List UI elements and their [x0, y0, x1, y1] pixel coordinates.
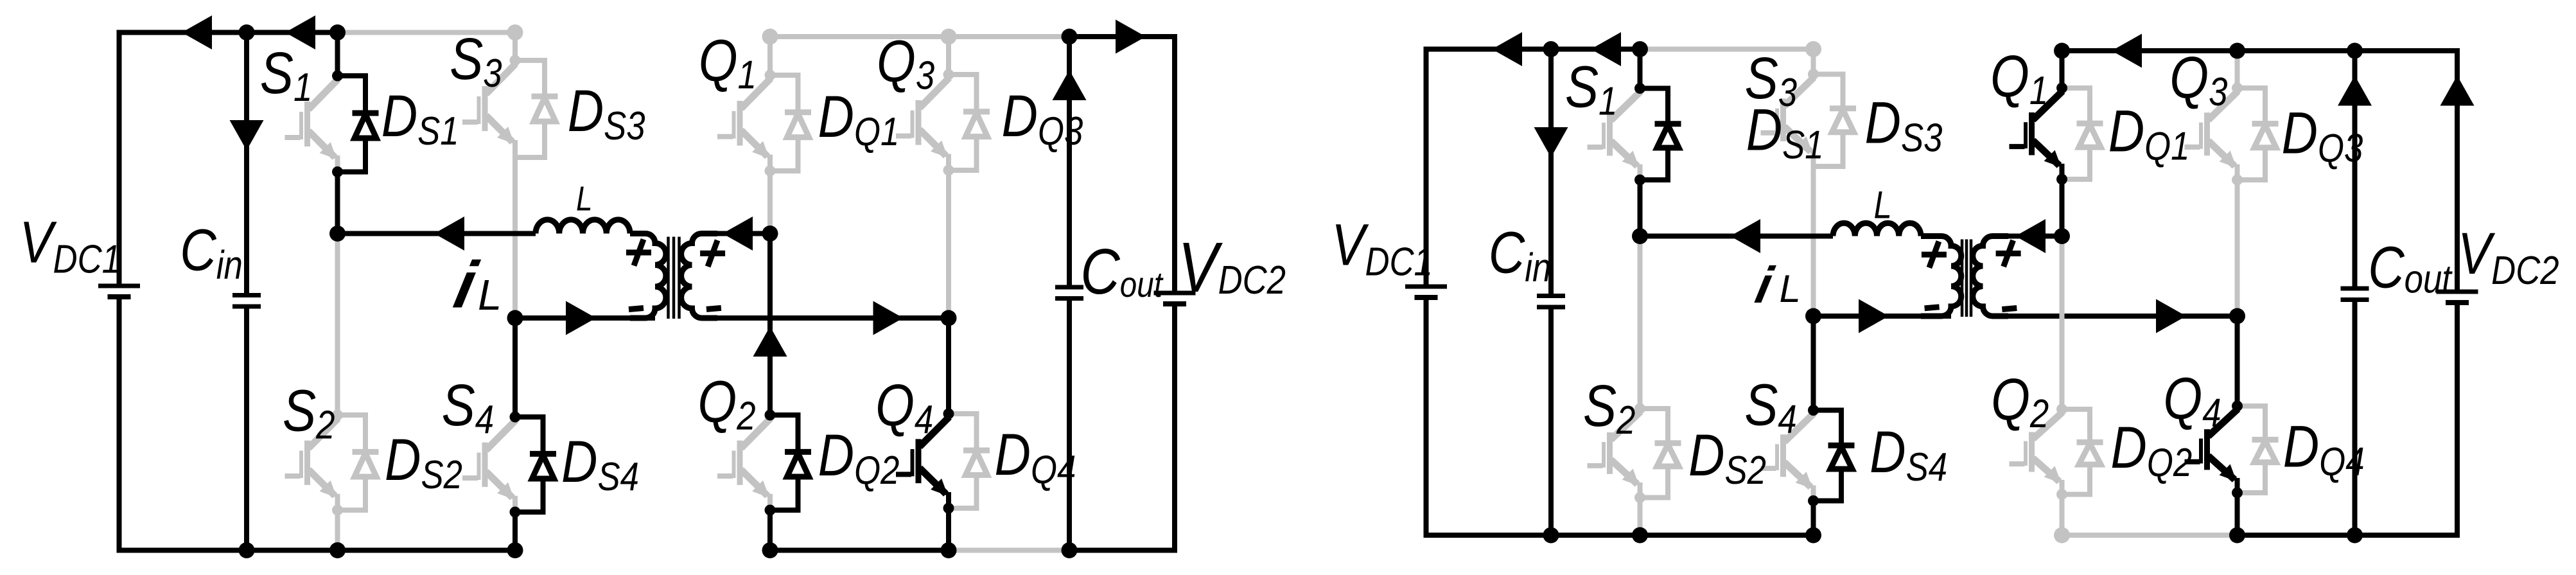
svg-text:S2: S2	[283, 378, 335, 448]
svg-text:S4: S4	[1744, 373, 1796, 442]
node c2 node B (S4 leg mid)	[1805, 308, 1821, 324]
battery V_DC1 (c1)	[98, 286, 140, 297]
battery V_DC2 (c1)	[1154, 293, 1196, 304]
node c2 bottom rail S4 junction	[1805, 527, 1821, 544]
wire c2 bottom rail Q2-Q4 segment	[2062, 533, 2238, 538]
transistor Q3 (c2) (IGBT)	[2185, 91, 2238, 180]
node S4 (c2) emitter	[1808, 495, 1819, 506]
wire c2 bottom rail Q4-C_out segment	[2238, 533, 2355, 538]
node S4 (c1) emitter	[510, 507, 521, 518]
wire c1 transformer secondary top arrow	[723, 217, 753, 251]
node Q4 (c1) collector	[943, 409, 954, 420]
node Q2 (c1) collector	[765, 410, 776, 421]
diode DQ3 (c1)	[949, 75, 990, 170]
wire c1 V_DC1 left branch top	[119, 33, 338, 285]
svg-text:Cin: Cin	[1489, 220, 1551, 290]
diode DS2 (c2)	[1640, 409, 1681, 498]
wire c2 top rail arrow 1	[1492, 32, 1522, 66]
diode DQ2 (c1)	[770, 415, 811, 510]
wire c2 S2 gray leg	[1638, 236, 1643, 409]
wire c1 S4 collector stub	[513, 318, 518, 417]
svg-text:Cin: Cin	[180, 218, 242, 288]
label plus primary (c1)	[626, 240, 651, 266]
node S1 (c2) emitter	[1634, 175, 1645, 186]
wire c2 S3 collector stub	[1811, 49, 1816, 75]
wire c2 Q1 emitter to mid node	[2060, 179, 2065, 236]
transistor S1 (c2) (IGBT)	[1588, 91, 1641, 180]
wire c2 top rail gray segment S1-S3	[1640, 47, 1814, 52]
node c1 secondary top rail Q1 junction	[762, 29, 778, 45]
wire c1 C_in branch top	[244, 33, 249, 294]
node S1 (c1) collector	[332, 71, 343, 82]
svg-text:i: i	[1751, 257, 1778, 314]
wire c2 secondary top rail right segment	[2355, 51, 2458, 290]
node c1 secondary top rail Q3 junction	[941, 29, 957, 45]
node S2 (c1) collector	[332, 410, 343, 421]
diode DQ4 (c2)	[2238, 406, 2279, 493]
wire c1 lower mid wire arrow	[566, 301, 596, 335]
wire c1 S1 emitter to mid node	[335, 172, 340, 234]
diode DS2 (c1)	[338, 415, 379, 510]
svg-text:L: L	[1780, 267, 1801, 310]
node c1 node C (Q1 leg mid)	[762, 226, 778, 242]
node S2 (c2) collector	[1634, 403, 1645, 414]
node S3 (c1) collector	[510, 55, 521, 66]
transformer T2	[1921, 236, 2008, 317]
wire c2 lower mid wire	[1814, 314, 1952, 319]
transistor S3 (c2) (IGBT)	[1761, 77, 1814, 166]
svg-text:Q1: Q1	[1990, 44, 2048, 113]
transistor S4 (c2) (IGBT)	[1761, 413, 1814, 500]
wire c1 C_in branch arrow	[230, 120, 264, 150]
transistor Q2 (c1) (IGBT)	[717, 418, 771, 510]
transistor Q4 (c1) (IGBT)	[896, 417, 949, 508]
wire c1 Q4 collector stub	[946, 318, 951, 414]
node Q3 (c1) collector	[943, 69, 954, 80]
diode DS3 (c1)	[515, 60, 558, 157]
node c1 top rail S1 junction	[329, 24, 346, 40]
node c1 bottom rail S2 junction	[329, 542, 346, 558]
svg-text:DQ3: DQ3	[2282, 101, 2363, 171]
diode DS3 (c2)	[1814, 75, 1857, 167]
node Q3 (c1) emitter	[943, 165, 954, 176]
wire c2 Q4 emitter to bottom rail	[2235, 493, 2240, 535]
node Q1 (c2) emitter	[2056, 174, 2067, 185]
diode DQ3 (c2)	[2238, 88, 2279, 180]
transistor Q4 (c2) (IGBT)	[2185, 409, 2238, 493]
transistor S4 (c1) (IGBT)	[462, 420, 516, 512]
node c2 bottom rail Q4 junction	[2229, 527, 2245, 544]
transistor S2 (c1) (IGBT)	[285, 418, 338, 510]
node c1 bottom rail C_in junction	[239, 542, 255, 558]
node Q1 (c1) emitter	[765, 166, 776, 177]
diode DS1 (c1)	[338, 76, 379, 172]
wire c1 upper mid wire to inductor	[338, 231, 536, 236]
wire c2 V_DC1 left branch bottom	[1426, 300, 1552, 535]
transistor Q1 (c2) (IGBT)	[2010, 91, 2063, 179]
wire c1 S1 collector stub	[335, 33, 340, 76]
svg-text:VDC1: VDC1	[1331, 213, 1433, 285]
wire c1 secondary top rail left segment	[770, 34, 1069, 39]
node c1 secondary top rail C_out junction	[1062, 29, 1078, 45]
node c1 bottom rail S4 junction	[507, 542, 523, 558]
transistor Q2 (c2) (IGBT)	[2010, 412, 2063, 494]
wire c1 C_in branch bottom	[244, 308, 249, 551]
svg-text:VDC2: VDC2	[2458, 221, 2559, 293]
wire c1 top rail arrow 2	[285, 15, 315, 49]
wire c2 transformer secondary top lead	[2006, 234, 2062, 239]
node c2 secondary top rail C_out junction	[2347, 43, 2363, 59]
node c2 secondary top rail Q1 junction	[2054, 43, 2070, 59]
wire c2 bottom rail S2-S4 segment	[1551, 533, 1814, 538]
node c2 bottom rail C_out junction	[2347, 527, 2363, 544]
transistor S2 (c2) (IGBT)	[1588, 412, 1641, 498]
svg-text:S3: S3	[450, 26, 502, 96]
node Q2 (c2) collector	[2056, 404, 2067, 415]
diode DS4 (c1)	[515, 417, 556, 512]
wire c1 S2 gray leg	[335, 234, 340, 416]
wire c1 upper mid wire arrow (i_L)	[434, 217, 464, 251]
wire c1 S3 collector stub	[513, 33, 518, 61]
transistor Q3 (c1) (IGBT)	[896, 78, 949, 170]
svg-text:Q3: Q3	[2169, 45, 2227, 114]
svg-text:S1: S1	[260, 40, 312, 110]
label i_L (c1)	[448, 249, 502, 323]
diode DQ4 (c1)	[949, 414, 990, 508]
node S2 (c1) emitter	[332, 505, 343, 516]
diode DQ2 (c2)	[2062, 409, 2103, 495]
wire c2 C_in branch bottom	[1548, 309, 1554, 535]
capacitor C_in (c2)	[1537, 296, 1565, 308]
node S3 (c2) collector	[1808, 69, 1819, 80]
node c2 bottom rail C_in junction	[1543, 527, 1559, 544]
transistor S1 (c1) (IGBT)	[285, 79, 338, 172]
diode DQ1 (c1)	[770, 75, 811, 171]
node c2 bottom rail S2 junction	[1632, 527, 1648, 544]
node Q3 (c2) emitter	[2232, 175, 2243, 186]
wire c2 V_DC1 left branch top	[1426, 49, 1640, 285]
wire c1 Q3 emitter to mid node	[946, 170, 951, 318]
diode DS1 (c2)	[1640, 89, 1681, 181]
wire c1 S2 emitter to bottom rail	[335, 510, 340, 551]
wire c2 S2 emitter to bottom rail	[1638, 498, 1643, 536]
diode DS4 (c2)	[1814, 411, 1855, 501]
node Q4 (c1) emitter	[943, 503, 954, 514]
wire c2 lower mid wire arrow	[1859, 299, 1889, 333]
wire c1 Q3 collector stub	[946, 37, 951, 75]
wire c2 Q2 leg vertical	[2060, 236, 2065, 410]
wire c1 C_out branch up arrow	[1053, 70, 1087, 100]
node Q2 (c1) emitter	[765, 505, 776, 516]
label plus secondary (c2)	[1996, 240, 2021, 267]
wire c1 secondary lower wire arrow	[873, 301, 904, 335]
label minus primary (c2)	[1925, 307, 1940, 308]
wire c2 upper mid wire arrow (i_L)	[1730, 219, 1760, 253]
transistor S3 (c1) (IGBT)	[462, 64, 516, 157]
node c1 bottom rail Q2 junction	[762, 542, 778, 558]
wire c2 S3 emitter to mid node	[1811, 166, 1816, 316]
wire c2 V_DC2 branch bottom	[2355, 305, 2458, 535]
node c1 node D (Q4 leg mid)	[941, 310, 957, 326]
svg-text:S3: S3	[1745, 46, 1797, 115]
node S2 (c2) emitter	[1634, 492, 1645, 503]
wire c2 S1 collector stub	[1638, 49, 1643, 89]
label i_L (c2)	[1751, 257, 1801, 314]
wire c2 C_in branch top	[1548, 49, 1554, 294]
node c1 bottom rail C_out junction	[1062, 542, 1078, 558]
wire c1 top rail gray segment S1-S3	[338, 30, 516, 35]
wire c2 Q3 collector stub	[2235, 51, 2240, 88]
svg-text:Cout: Cout	[2368, 235, 2453, 302]
svg-text:L: L	[478, 271, 502, 319]
svg-text:Q2: Q2	[1991, 367, 2049, 436]
svg-text:L: L	[1874, 184, 1892, 227]
node c2 node D (Q4 leg mid)	[2229, 308, 2245, 324]
node S4 (c2) collector	[1808, 405, 1819, 416]
label minus primary (c1)	[629, 308, 644, 310]
node c1 node A (S1 leg mid)	[329, 226, 346, 242]
wire c2 S1 emitter to mid node	[1638, 180, 1643, 236]
wire c2 S4 emitter to bottom rail	[1811, 501, 1816, 536]
node Q1 (c2) collector	[2056, 83, 2067, 94]
wire c1 Q2 leg up arrow	[753, 326, 787, 357]
wire c2 C_in branch arrow	[1534, 127, 1568, 157]
node Q2 (c2) emitter	[2056, 489, 2067, 500]
capacitor C_in (c1)	[232, 296, 261, 307]
capacitor C_out (c2)	[2341, 288, 2369, 300]
wire c1 lower mid wire	[515, 315, 655, 321]
svg-text:DQ4: DQ4	[995, 422, 1076, 492]
wire c1 S3 emitter to mid node	[513, 157, 518, 318]
wire c2 secondary top rail arrow to Q1	[2112, 34, 2142, 68]
battery V_DC1 (c2)	[1405, 287, 1447, 297]
wire c1 transformer secondary bottom lead	[715, 315, 949, 321]
wire c1 Q2 leg vertical	[767, 234, 773, 416]
battery V_DC2 (c2)	[2437, 292, 2478, 303]
wire c2 Q3 emitter to mid node	[2235, 180, 2240, 316]
node S4 (c1) collector	[510, 412, 521, 423]
wire c2 top rail arrow 2	[1591, 32, 1621, 66]
svg-text:DQ1: DQ1	[818, 84, 900, 154]
wire c2 transformer secondary bottom lead	[2006, 314, 2238, 319]
wire c1 Q2 emitter to bottom rail	[767, 510, 773, 551]
wire c1 Q4 emitter to bottom rail	[946, 508, 951, 551]
node c2 node C (Q1 leg mid)	[2054, 228, 2070, 244]
node c2 top rail S3 end (gray)	[1805, 41, 1821, 57]
wire c2 C_out branch up arrow	[2338, 76, 2372, 106]
node Q1 (c1) collector	[765, 70, 776, 81]
label plus primary (c2)	[1922, 242, 1947, 268]
wire c2 transformer secondary top arrow	[2015, 219, 2046, 253]
svg-text:Q2: Q2	[697, 369, 755, 438]
wire c1 bottom rail Q2-Q4 segment	[770, 548, 949, 553]
wire c1 top rail arrow 1	[182, 15, 212, 49]
svg-text:DS4: DS4	[561, 429, 639, 499]
svg-text:S4: S4	[442, 373, 494, 442]
node c1 top rail C_in junction	[239, 24, 255, 40]
wire c2 Q1 collector stub	[2060, 51, 2065, 88]
wire c2 C_out branch bottom	[2353, 302, 2358, 536]
node c2 secondary top rail Q3 junction	[2229, 43, 2245, 59]
node c2 node A (S1 leg mid)	[1632, 228, 1648, 244]
wire c1 secondary top rail arrow to V_DC2	[1116, 20, 1146, 54]
transistor Q1 (c1) (IGBT)	[717, 78, 771, 171]
label minus secondary (c2)	[2002, 308, 2017, 310]
svg-text:DS3: DS3	[568, 78, 645, 148]
svg-text:DS1: DS1	[381, 84, 459, 154]
transformer T1	[630, 234, 717, 319]
wire c2 upper mid wire to inductor	[1640, 234, 1834, 239]
node Q4 (c2) emitter	[2232, 488, 2243, 499]
svg-text:Q1: Q1	[699, 28, 757, 98]
wire c1 V_DC2 branch bottom	[1069, 306, 1175, 551]
wire c1 C_out branch bottom	[1067, 301, 1072, 551]
node c1 node B (S4 leg mid)	[507, 310, 523, 326]
wire c1 transformer secondary top lead	[715, 231, 770, 236]
capacitor C_out (c1)	[1055, 287, 1083, 299]
svg-text:DS4: DS4	[1870, 420, 1947, 490]
svg-text:S1: S1	[1565, 55, 1617, 124]
wire c1 C_out branch top	[1067, 37, 1072, 285]
label plus secondary (c1)	[700, 240, 725, 267]
label minus secondary (c1)	[706, 308, 721, 309]
diode DQ1 (c2)	[2062, 88, 2103, 179]
svg-text:Cout: Cout	[1080, 235, 1164, 307]
wire c2 secondary top rail left segment	[2062, 48, 2355, 53]
svg-text:L: L	[576, 179, 593, 218]
node Q3 (c2) collector	[2232, 83, 2243, 94]
svg-text:DS3: DS3	[1865, 91, 1943, 161]
wire c2 C_out branch top	[2353, 51, 2358, 287]
node c1 bottom rail Q4 junction	[941, 542, 957, 558]
node c1 top rail S3 end (gray)	[507, 24, 523, 40]
wire c1 S4 emitter to bottom rail	[513, 512, 518, 551]
wire c1 secondary top rail right segment	[1069, 37, 1175, 291]
wire c1 Q1 collector stub	[767, 37, 773, 75]
inductor L (c1)	[536, 220, 630, 234]
wire c1 bottom rail S2-S4 segment	[247, 548, 515, 553]
node c2 bottom rail Q2 junction	[2054, 527, 2070, 544]
svg-text:S2: S2	[1583, 373, 1635, 443]
wire c2 Q4 collector stub	[2235, 316, 2240, 406]
node Q4 (c2) collector	[2232, 401, 2243, 412]
wire c1 bottom rail Q4-C_out segment	[949, 548, 1069, 553]
node c2 top rail S1 junction	[1632, 41, 1648, 57]
svg-text:VDC2: VDC2	[1178, 228, 1286, 307]
wire c1 Q1 emitter to mid node	[767, 171, 773, 234]
wire c1 V_DC1 left branch bottom	[119, 299, 247, 551]
svg-text:Q4: Q4	[2163, 366, 2221, 435]
node S1 (c2) collector	[1634, 83, 1645, 94]
wire c2 S4 collector stub	[1811, 316, 1816, 411]
wire c2 V_DC2 branch up arrow	[2440, 76, 2475, 106]
node c2 top rail C_in junction	[1543, 41, 1559, 57]
wire c2 Q2 emitter to bottom rail	[2060, 495, 2065, 536]
node S1 (c1) emitter	[332, 166, 343, 177]
inductor L (c2)	[1833, 223, 1921, 236]
svg-text:VDC1: VDC1	[19, 209, 121, 281]
svg-text:Q4: Q4	[875, 373, 933, 442]
wire c2 secondary lower wire arrow	[2156, 299, 2186, 333]
